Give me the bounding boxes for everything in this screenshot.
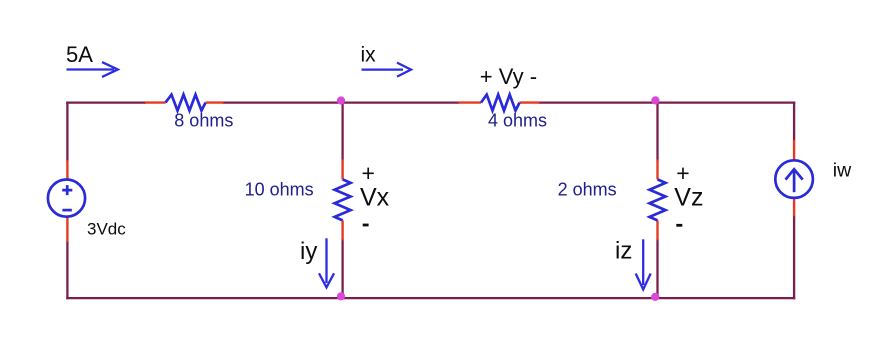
svg-text:iy: iy: [300, 238, 317, 265]
svg-text:10 ohms: 10 ohms: [245, 180, 314, 200]
svg-text:4 ohms: 4 ohms: [488, 111, 547, 131]
svg-text:Vx: Vx: [360, 184, 390, 212]
svg-text:ix: ix: [361, 44, 377, 67]
svg-text:3Vdc: 3Vdc: [87, 219, 126, 238]
svg-text:iw: iw: [833, 159, 852, 181]
svg-text:5A: 5A: [66, 42, 93, 67]
svg-text:+: +: [676, 160, 689, 186]
svg-text:iz: iz: [615, 237, 632, 264]
svg-text:8 ohms: 8 ohms: [174, 110, 233, 130]
svg-text:2 ohms: 2 ohms: [558, 180, 617, 200]
svg-text:+ Vy -: + Vy -: [480, 64, 537, 89]
svg-text:+: +: [362, 160, 375, 186]
svg-text:Vz: Vz: [674, 184, 703, 212]
